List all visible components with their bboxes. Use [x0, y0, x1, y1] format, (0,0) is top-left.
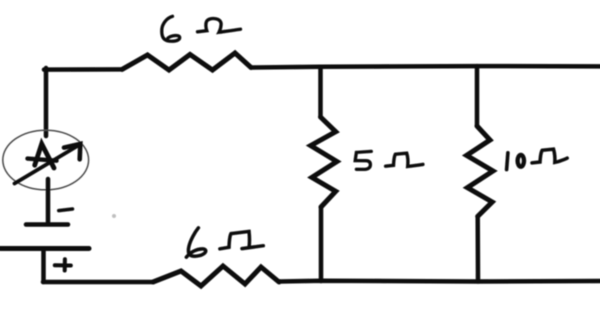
wire: 10-ohm branch bottom stub [475, 216, 480, 281]
label ohm (right resistor unit) [532, 149, 567, 163]
wire: 10-ohm branch top stub [475, 66, 480, 126]
resistor R1 6-ohm (top, zigzag) [122, 53, 251, 70]
ammeter letter A crossbar [28, 159, 57, 161]
wire: bottom horizontal right segment to right edge [279, 278, 600, 283]
resistor R3 10-ohm (vertical zigzag) [467, 126, 493, 216]
ammeter A1 circle outline [3, 130, 89, 190]
label 1 (right resistor value) [507, 153, 508, 170]
label 5 (middle resistor value) [355, 151, 371, 169]
wire: stub ammeter to battery negative plate [46, 179, 51, 224]
ammeter letter A [35, 144, 54, 168]
wire: 5-ohm branch bottom stub [319, 207, 324, 281]
label 6 (top resistor value) [162, 16, 180, 41]
label ohm (top resistor unit) [198, 19, 241, 33]
battery B1 negative plate (short) [26, 222, 68, 227]
label 0 (right resistor value) [518, 155, 524, 167]
wire: top horizontal right segment to right edge [251, 66, 600, 67]
wire: 5-ohm branch top stub [318, 67, 323, 117]
label ohm (middle resistor unit) [386, 153, 423, 166]
label 6 (bottom resistor value) [186, 228, 205, 257]
resistor R4 6-ohm (bottom, zigzag) [153, 266, 279, 286]
label plus sign [55, 259, 71, 270]
wire: top-left vertical from corner down to ammeter [44, 68, 49, 136]
label ohm (bottom resistor unit) [220, 231, 263, 248]
battery B1 positive plate (long) [0, 246, 89, 251]
wire: top horizontal left segment [44, 67, 122, 72]
label minus sign [59, 209, 73, 211]
resistor R2 5-ohm (vertical zigzag) [311, 117, 337, 207]
artifact: faint gray dot [112, 214, 116, 218]
ammeter arrow head [64, 144, 80, 159]
wire: bottom horizontal left segment [43, 280, 153, 285]
wire: battery positive to bottom wire [41, 249, 46, 282]
ammeter arrow shaft [15, 146, 78, 183]
